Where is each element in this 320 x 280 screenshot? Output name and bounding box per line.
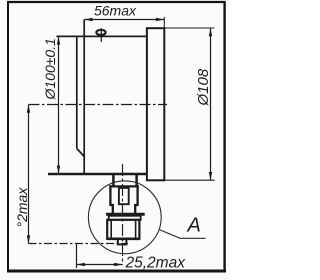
hex nut left facet line (110, 220, 112, 239)
border frame of scanned figure (7, 1, 226, 272)
arrowhead top of height dimension (27, 105, 30, 113)
hex nut right facet line (135, 220, 137, 239)
fitting neck left line (112, 173, 115, 186)
fitting wrench boss inner face rectangle (119, 188, 129, 204)
svg-text:°2max: °2max (14, 187, 30, 228)
svg-text:Ø100±0.1: Ø100±0.1 (42, 38, 58, 100)
bezel ring (front rim, side view) (147, 28, 164, 180)
gauge case bottom contour line (also extension line for diameter 100 dimension) (48, 173, 147, 175)
svg-text:25,2max: 25,2max (125, 254, 187, 271)
threaded connection tip (118, 239, 127, 245)
gauge case top contour line (also extension line for diameter 100 dimension) (57, 35, 147, 37)
fitting wrench boss side contour with waist steps (110, 185, 137, 213)
top extension line of diameter 108 dimension (164, 27, 214, 29)
dimension line diameter 100 plus-minus 0.1 (58, 36, 60, 173)
vertical centerline of pressure connection fitting (122, 164, 124, 265)
dimension line 56max (84, 19, 164, 21)
filler plug stem on case top (100, 28, 102, 42)
fitting neck right line (135, 173, 138, 186)
fitting washer collar (109, 216, 141, 220)
arrowhead left of 25.2max (77, 263, 85, 266)
dimension line height 2max (left vertical) (28, 105, 30, 244)
arrowhead bottom of diameter 100 dimension (57, 166, 60, 174)
arrowhead right of 56max (156, 18, 164, 21)
fitting wrench boss top shoulder line (109, 185, 138, 187)
arrowhead left of 56max (84, 18, 92, 21)
arrowhead bottom of diameter 108 dimension (209, 172, 212, 180)
leader line from detail circle to label A (160, 230, 206, 239)
filler plug head (96, 30, 105, 35)
arrowhead top of diameter 108 dimension (209, 28, 212, 36)
fitting bottom lip bar (106, 213, 145, 216)
case back inner contour line (also left extension line of 56max) (83, 20, 85, 174)
right extension line of 56max (bezel front edge extended up) (163, 17, 165, 28)
detail view circle A around fitting (88, 181, 161, 254)
horizontal centerline of gauge dial (29, 104, 168, 106)
svg-text:A: A (187, 215, 201, 237)
bottom extension line of diameter 108 dimension (164, 179, 214, 181)
arrowhead bottom of height dimension (27, 235, 30, 243)
fitting hex nut body (107, 220, 139, 239)
svg-text:56max: 56max (94, 3, 137, 19)
arrowhead right of 25.2max (114, 263, 122, 266)
dimension line 25.2max (77, 264, 123, 266)
horizontal chain line at fitting tip level (29, 243, 129, 245)
case back outer contour line (76, 36, 78, 149)
case back chamfer (77, 149, 84, 157)
left extension line of 25.2max (case back plane extended down) (76, 244, 78, 268)
arrowhead top of diameter 100 dimension (57, 36, 60, 44)
hex nut bottom edge (107, 238, 139, 241)
dimension line diameter 108 (210, 28, 212, 180)
svg-text:Ø108: Ø108 (195, 68, 212, 106)
